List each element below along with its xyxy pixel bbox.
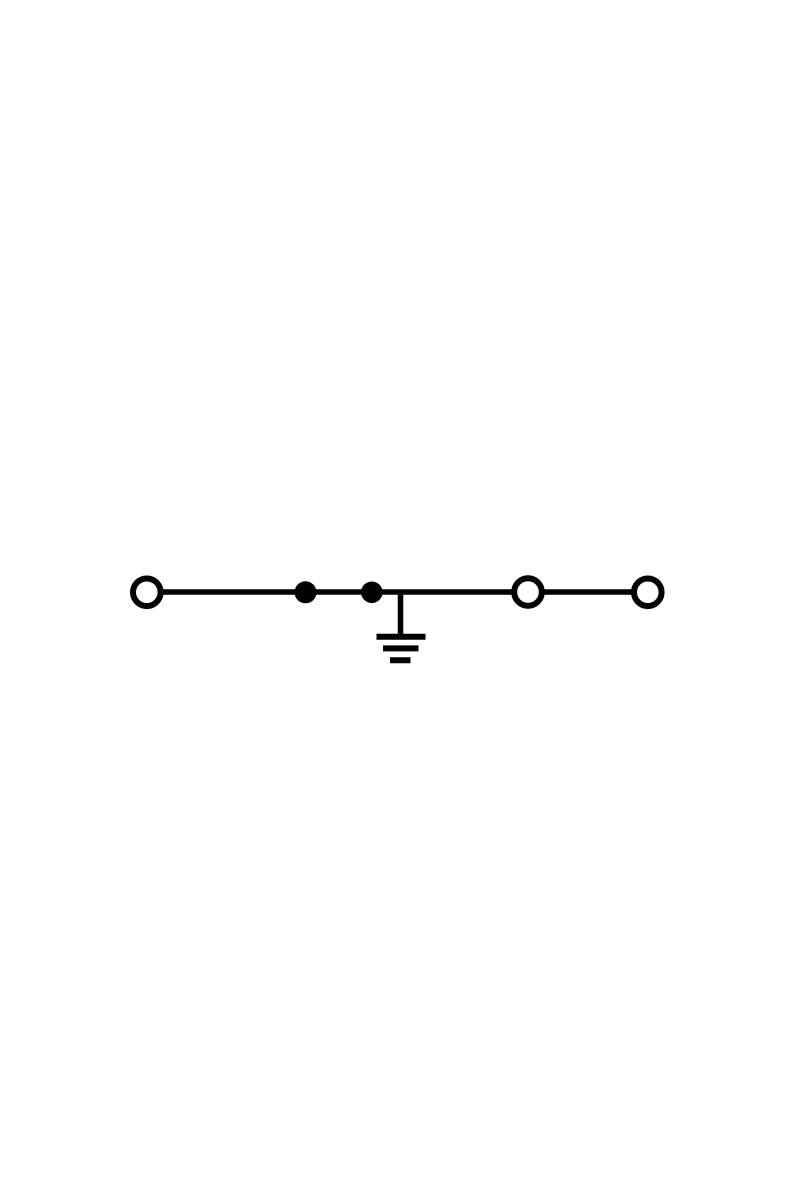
junction: solder dot on main conductor (left) [295,581,317,603]
ground: earth symbol middle bar [383,645,419,651]
terminal 2: open-circle clamp contact (center right) [514,578,542,606]
junction: solder dot on main conductor (right) [361,582,383,604]
wire: main horizontal conductor from left terminal to third terminal [147,589,528,595]
terminal 3: open-circle clamp contact (far right) [634,579,662,607]
ground: earth symbol bottom bar [390,657,411,663]
wire: vertical drop to ground symbol [398,592,404,637]
wire: horizontal segment between third and fourth terminal [528,589,648,595]
ground: earth symbol top bar [377,634,426,640]
terminal 1: open-circle clamp contact (far left) [133,579,161,607]
